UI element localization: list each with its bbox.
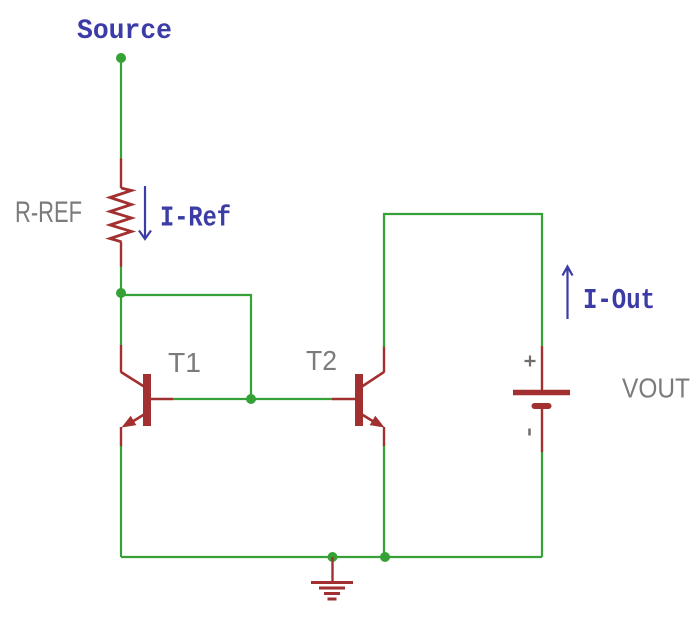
junction ground rail — [328, 552, 338, 562]
junction node A — [116, 288, 126, 298]
current arrow I-Out — [563, 267, 573, 320]
current arrow I-Ref — [139, 186, 151, 239]
wire battery minus down — [541, 452, 543, 557]
wire node A to T1 collector — [120, 293, 122, 346]
transistor T2 — [332, 345, 385, 447]
svg-text:T1: T1 — [168, 347, 201, 378]
wire T2 emitter down — [383, 446, 385, 557]
junction T2 emitter rail — [380, 552, 390, 562]
svg-text:I-Ref: I-Ref — [160, 202, 231, 235]
wire top to battery — [383, 214, 542, 347]
wire T2 collector up — [383, 214, 385, 347]
svg-text:R-REF: R-REF — [15, 196, 82, 229]
wire base rail — [173, 398, 332, 400]
svg-text:T2: T2 — [306, 345, 337, 376]
transistor T1 — [121, 345, 173, 447]
svg-text:VOUT: VOUT — [622, 373, 690, 404]
svg-text:Source: Source — [77, 16, 172, 47]
wire R-REF to node A — [120, 267, 122, 294]
svg-text:I-Out: I-Out — [583, 284, 655, 317]
battery VOUT — [513, 346, 570, 453]
junction base rail — [246, 394, 256, 404]
wire T1 emitter down — [120, 446, 122, 557]
ground — [311, 557, 353, 599]
wire node A to base rail — [121, 295, 251, 399]
wire source down — [120, 58, 122, 160]
resistor R-REF — [110, 159, 132, 267]
wire bottom rail — [121, 556, 542, 558]
node Source junction — [116, 53, 126, 63]
